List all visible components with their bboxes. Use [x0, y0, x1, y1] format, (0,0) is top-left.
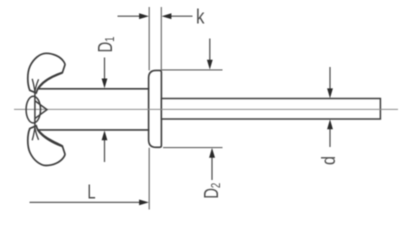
svg-text:D2: D2 — [200, 183, 224, 199]
svg-text:k: k — [196, 5, 205, 28]
svg-text:d: d — [318, 156, 340, 165]
svg-text:D1: D1 — [94, 36, 118, 52]
svg-text:L: L — [87, 180, 95, 203]
